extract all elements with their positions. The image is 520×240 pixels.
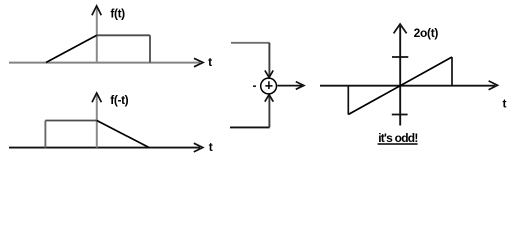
svg-text:f(t): f(t): [110, 7, 125, 21]
plot 3: vertical axis: [399, 26, 401, 126]
svg-text:t: t: [208, 55, 212, 69]
plot 2: rectangle left edge: [44, 121, 46, 148]
plot 3: lower tick on vertical axis: [392, 114, 408, 116]
svg-text:t: t: [503, 96, 507, 110]
summing junction: minus sign: [253, 85, 256, 87]
svg-text:2o(t): 2o(t): [414, 26, 439, 40]
plot 1: horizontal axis arrowhead: [194, 58, 203, 67]
plot 3: upper tick on vertical axis: [392, 56, 408, 58]
summing junction: circle: [261, 78, 277, 94]
plot 3: horizontal axis arrowhead: [489, 81, 498, 90]
summing junction: top input wire horizontal: [231, 42, 270, 44]
svg-text:f(-t): f(-t): [110, 93, 128, 107]
plot 2: ramp of f(-t): [97, 121, 149, 148]
plot 2: vertical axis: [96, 95, 98, 148]
plot 3: underline of it's odd!: [378, 143, 418, 145]
plot 2: f(-t) horizontal axis: [9, 147, 200, 149]
plot 3: waveform rising diagonal through origin: [348, 57, 452, 115]
svg-text:t: t: [209, 140, 213, 154]
plot 1: rectangle right edge: [149, 35, 151, 62]
plot 3: vertical axis arrowhead: [394, 24, 407, 33]
plot 1: rectangle top edge: [97, 34, 150, 36]
plot 3: waveform left vertical segment: [347, 86, 349, 115]
summing junction: bottom input wire horizontal: [230, 126, 270, 128]
plot 1: f(t) horizontal axis: [9, 62, 200, 64]
summing junction: bottom input wire vertical: [268, 95, 270, 127]
plot 3: horizontal axis: [320, 85, 495, 87]
summing junction: output wire: [277, 85, 303, 87]
plot 1: vertical axis arrowhead: [92, 6, 101, 15]
plot 3: waveform right vertical segment: [451, 57, 453, 86]
summing junction: top input wire vertical: [268, 43, 270, 77]
plot 1: ramp of f(t): [46, 35, 97, 62]
summing junction: top input arrowhead: [265, 70, 273, 77]
svg-text:it's odd!: it's odd!: [378, 131, 417, 145]
summing junction: output arrowhead: [296, 82, 304, 90]
plot 2: rectangle top edge: [45, 120, 96, 122]
plot 1: vertical axis: [96, 8, 98, 63]
summing junction: bottom input arrowhead: [265, 95, 274, 102]
plot 2: horizontal axis arrowhead: [194, 143, 203, 152]
summing junction: plus sign: [265, 81, 272, 89]
plot 2: vertical axis arrowhead: [92, 93, 101, 102]
